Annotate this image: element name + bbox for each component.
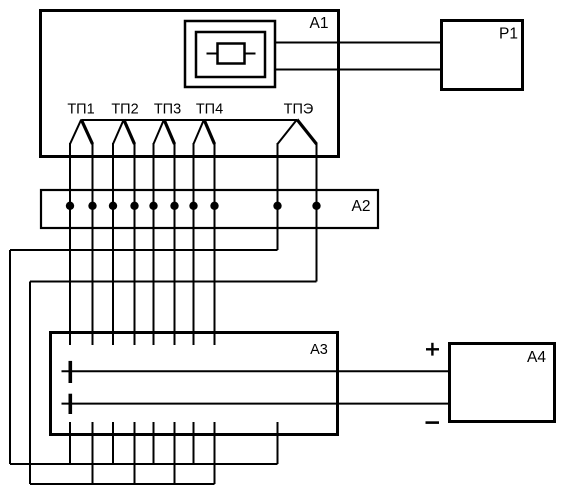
contact dot 6 xyxy=(170,202,178,210)
bottom bus line 1 xyxy=(10,463,278,465)
contact dot 9 xyxy=(273,202,281,210)
contact dot 10 xyxy=(312,202,320,210)
wire TPE right horizontal xyxy=(30,281,317,283)
wire TPE right down left side xyxy=(29,282,31,485)
stub TP3 right bottom xyxy=(174,422,176,484)
hot junction bus line xyxy=(81,119,297,121)
plus sign xyxy=(426,348,439,350)
thermocouple TP1 xyxy=(70,120,81,145)
minus sign xyxy=(426,421,440,424)
sample chamber middle rect xyxy=(196,32,265,77)
contact dot 5 xyxy=(149,202,157,210)
contact dot 1 xyxy=(66,202,74,210)
wire A1 to P1 lower xyxy=(275,69,441,71)
stub TP4 left bottom xyxy=(193,422,195,464)
contact dot 8 xyxy=(210,202,218,210)
svg-text:А1: А1 xyxy=(310,15,329,32)
lower bus wire to A4 xyxy=(62,403,450,405)
stub TP2 left bottom xyxy=(112,422,114,464)
upper bus wire to A4 xyxy=(62,370,450,372)
wire TP2 right leg xyxy=(134,143,136,345)
lower terminal tick xyxy=(69,394,73,414)
sample left stub xyxy=(207,53,218,55)
svg-text:ТП2: ТП2 xyxy=(111,102,138,118)
wire TPE left down left side xyxy=(9,250,11,464)
svg-text:ТП1: ТП1 xyxy=(67,102,94,118)
stub TP3 left bottom xyxy=(153,422,155,464)
stub TPE return into A3 xyxy=(277,422,279,464)
thermocouple TP3 xyxy=(154,120,165,145)
thermocouple TP2 xyxy=(113,120,124,145)
svg-text:А2: А2 xyxy=(352,198,371,215)
thermostat box A3 xyxy=(51,333,338,435)
thermocouple TP4 xyxy=(194,120,205,145)
svg-text:А4: А4 xyxy=(527,349,546,366)
svg-text:ТПЭ: ТПЭ xyxy=(284,102,314,118)
sample chamber outer rect xyxy=(185,21,275,87)
stub TP4 right bottom xyxy=(214,422,216,484)
box P1 xyxy=(442,21,523,90)
wire TPE right leg down xyxy=(316,143,318,282)
wire TPE left leg down xyxy=(277,143,279,250)
wire TP1 right leg xyxy=(92,143,94,345)
svg-text:Р1: Р1 xyxy=(499,26,518,43)
wire TP3 right leg xyxy=(174,143,176,345)
svg-text:ТП4: ТП4 xyxy=(196,102,223,118)
contact dot 2 xyxy=(88,202,96,210)
sample inner rect xyxy=(218,44,245,64)
wire A1 to P1 upper xyxy=(275,42,441,44)
svg-text:ТП3: ТП3 xyxy=(154,102,181,118)
wire TPE left horizontal xyxy=(10,249,278,251)
switch box A2 xyxy=(41,190,378,228)
thermocouple TPE xyxy=(278,120,298,145)
bottom bus line 2 xyxy=(30,483,215,485)
wire TP1 left leg xyxy=(69,143,71,345)
furnace box A1 xyxy=(41,11,339,157)
stub TP1 right bottom xyxy=(92,422,94,484)
potentiometer box A4 xyxy=(450,344,555,422)
wire TP4 left leg xyxy=(193,143,195,345)
wire TP3 left leg xyxy=(153,143,155,345)
svg-text:А3: А3 xyxy=(310,342,328,358)
contact dot 7 xyxy=(189,202,197,210)
upper terminal tick xyxy=(69,361,73,383)
contact dot 3 xyxy=(109,202,117,210)
wire TP4 right leg xyxy=(214,143,216,345)
sample right stub xyxy=(245,53,256,55)
wire TP2 left leg xyxy=(112,143,114,345)
stub TP1 left bottom xyxy=(69,422,71,464)
stub TP2 right bottom xyxy=(134,422,136,484)
contact dot 4 xyxy=(130,202,138,210)
